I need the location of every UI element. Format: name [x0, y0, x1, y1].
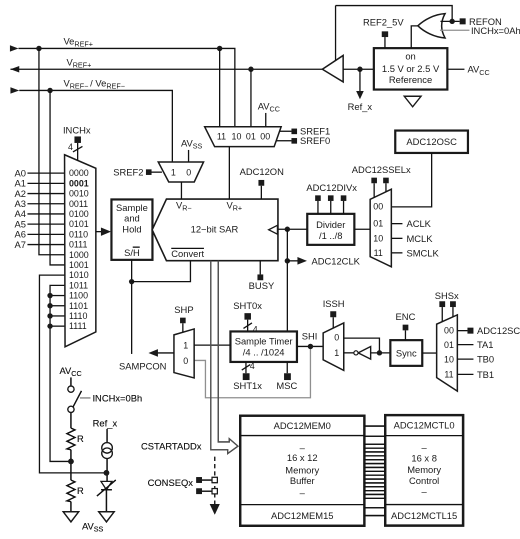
connector open squares on dashed line	[212, 477, 217, 494]
node S/H control junction	[129, 279, 134, 284]
node 1111	[47, 323, 52, 328]
svg-text:00: 00	[444, 326, 454, 336]
resistor R1	[67, 428, 75, 450]
svg-text:R: R	[77, 485, 84, 496]
svg-text:ADC12MCTL15: ADC12MCTL15	[391, 510, 457, 521]
svg-text:ADC12SC: ADC12SC	[477, 325, 520, 336]
svg-text:1111: 1111	[69, 321, 87, 331]
wire net VeREF+ (y=48)	[18, 48, 234, 126]
arrowhead into sample and hold	[101, 227, 111, 235]
wire INCHx select into mux with bus slash	[73, 143, 83, 161]
multiplexer ISSH (invert sample input)	[323, 323, 344, 371]
node junction VREF+ to mux 01	[248, 67, 253, 72]
input A7 wire	[27, 244, 64, 246]
terminal square ENC	[403, 325, 409, 331]
input A1 wire	[27, 182, 64, 184]
svg-text:01: 01	[246, 132, 256, 142]
svg-text:–: –	[422, 442, 428, 453]
input A4 wire	[27, 213, 64, 215]
bus CSTARTADDx fat arrow from SAR convert to memory	[211, 261, 238, 454]
terminal square MSC	[284, 373, 291, 380]
wires SHSx selects into mux	[442, 307, 453, 322]
terminal square ISSH	[330, 311, 336, 317]
wires ADC12SSELx selects into mux	[374, 183, 386, 197]
svg-text:–: –	[422, 486, 428, 497]
label memory control interior	[407, 442, 441, 497]
wire VR- mux output to SAR	[180, 182, 182, 199]
input A6 wire	[27, 233, 64, 235]
ground symbol below diode	[99, 512, 114, 522]
svg-text:1: 1	[334, 348, 339, 358]
wire REFON loop (top)	[336, 6, 453, 22]
svg-text:ADC12OSC: ADC12OSC	[406, 136, 457, 147]
resistor R2	[67, 480, 75, 502]
svg-text:CONSEQx: CONSEQx	[148, 477, 194, 488]
mux labels 1 0	[171, 167, 191, 177]
wire REFON input	[440, 20, 459, 22]
node junction VeREF+ to mux 11	[217, 46, 222, 51]
multiplexer SHSx (sample trigger select)	[437, 315, 458, 391]
terminal square SHP	[180, 318, 186, 324]
ground symbol below R2	[63, 512, 78, 522]
node resistor midpoint	[68, 459, 74, 465]
wires ADC12DIVx selects into divider	[318, 201, 344, 214]
label memory buffer interior	[285, 442, 319, 498]
svg-text:0: 0	[186, 167, 191, 177]
mux code labels 0000-1111	[69, 168, 89, 331]
wire mux 11 input from VeREF+	[219, 48, 221, 126]
svg-text:4: 4	[250, 361, 255, 371]
label on / 1.5 V or 2.5 V / Reference	[382, 51, 440, 86]
terminal squares CONSEQx	[196, 477, 202, 494]
or-gate U1 (REFON + INCHx=0Ah, points left)	[418, 14, 445, 38]
wire SREF2 to mux	[151, 171, 162, 173]
switch INCHx=0Bh	[68, 386, 82, 412]
svg-text:1011: 1011	[69, 280, 88, 290]
svg-text:SAMPCON: SAMPCON	[119, 361, 166, 372]
wire conversion sequence dashed line	[210, 457, 220, 515]
svg-text:0001: 0001	[69, 178, 89, 188]
svg-text:MCLK: MCLK	[406, 233, 433, 244]
mux labels 1 0 (SHP)	[183, 341, 188, 367]
wire net VREF+ (y=68.8)	[10, 68, 322, 70]
node junction VREF- to 1001	[47, 88, 52, 93]
wire switch to resistor R1	[70, 412, 72, 428]
wire stub code 1110	[50, 315, 64, 317]
wire SREF0 select	[276, 140, 291, 142]
label Divider /1../8	[316, 219, 345, 241]
wire ADC12ON to SAR	[260, 186, 262, 199]
svg-text:SMCLK: SMCLK	[406, 247, 439, 258]
terminal square REFON	[460, 18, 466, 24]
terminal square SREF2	[146, 169, 152, 175]
label Convert (with overline)	[171, 248, 204, 259]
input A2 wire	[27, 193, 64, 195]
wire TA1 input	[457, 344, 473, 346]
block Sample Timer /4../1024	[230, 331, 297, 362]
terminal square ADC12SC	[467, 328, 473, 334]
node ADC12CLK junction upper	[285, 227, 290, 232]
terminal square ADC12ON	[258, 180, 264, 186]
svg-text:ADC12MEM15: ADC12MEM15	[271, 510, 334, 521]
svg-text:0010: 0010	[69, 189, 89, 199]
svg-text:SREF0: SREF0	[300, 135, 330, 146]
svg-text:1100: 1100	[69, 291, 88, 301]
svg-text:ADC12DIVx: ADC12DIVx	[306, 182, 357, 193]
svg-text:1: 1	[171, 167, 176, 177]
svg-text:4: 4	[253, 324, 258, 334]
ground symbol below R2	[63, 512, 78, 522]
wire INCHx=0Ah input (gray)	[440, 29, 470, 31]
wire buffer output to reference block	[343, 68, 374, 70]
svg-text:ADC12SSELx: ADC12SSELx	[352, 164, 411, 175]
wire Ref_x to current source	[106, 429, 108, 443]
node SHI junction	[308, 344, 313, 349]
terminal square REF2_5V	[382, 31, 388, 37]
svg-text:BUSY: BUSY	[249, 280, 275, 291]
svg-text:10: 10	[373, 233, 383, 243]
wire AVCC to switch	[70, 377, 72, 386]
svg-text:ISSH: ISSH	[323, 298, 345, 309]
svg-text:INCHx=0Bh: INCHx=0Bh	[92, 392, 142, 403]
terminal square SREF1	[291, 129, 297, 135]
svg-text:10: 10	[232, 132, 242, 142]
block Divider /1../8	[307, 214, 354, 245]
svg-text:SHT1x: SHT1x	[233, 380, 262, 391]
svg-text:1: 1	[183, 341, 188, 351]
svg-text:ADC12MCTL0: ADC12MCTL0	[394, 420, 455, 431]
wire diode to ground	[105, 490, 107, 512]
svg-text:Hold: Hold	[122, 223, 141, 234]
svg-text:R: R	[77, 433, 84, 444]
wire reference output to AVCC	[447, 68, 464, 70]
wire SAMPCON output with arrow	[148, 349, 174, 357]
wire R2 to ground	[70, 502, 72, 512]
svg-text:–: –	[300, 487, 306, 498]
svg-text:Sample: Sample	[116, 202, 148, 213]
block 16x12 Memory Buffer ADC12MEM0-ADC12MEM15	[240, 416, 364, 526]
label Sample and Hold / S/H	[116, 202, 148, 258]
wire ADC12SC input	[457, 330, 467, 332]
node 1100	[47, 293, 52, 298]
svg-text:0110: 0110	[69, 229, 88, 239]
pin arrow VeREF+	[10, 45, 19, 51]
multiplexer VR- select (1/0)	[158, 162, 203, 182]
wire R1 to midpoint node	[70, 450, 72, 480]
wire switch label tick (gray)	[80, 397, 91, 399]
svg-text:01: 01	[373, 219, 383, 229]
svg-text:0011: 0011	[69, 199, 88, 209]
svg-text:11: 11	[374, 248, 383, 258]
wire current source to diode node	[106, 459, 108, 482]
svg-text:01: 01	[444, 340, 454, 350]
label memory control interior	[407, 442, 441, 497]
svg-text:10: 10	[444, 354, 454, 364]
svg-text:INCHx=0Ah: INCHx=0Ah	[471, 25, 520, 36]
svg-text:SHP: SHP	[174, 304, 193, 315]
svg-text:Memory: Memory	[407, 464, 441, 475]
block 1.5V or 2.5V Reference	[374, 48, 448, 89]
svg-text:00: 00	[260, 132, 270, 142]
svg-text:1101: 1101	[69, 301, 88, 311]
label Sample Timer /4../1024	[235, 336, 293, 358]
svg-text:on: on	[405, 51, 415, 62]
wires memory buffer to memory control connections	[364, 426, 385, 515]
current source I1 (temperature sensor bias)	[102, 443, 113, 459]
svg-text:REF2_5V: REF2_5V	[363, 16, 404, 27]
terminal squares ADC12DIVx	[315, 195, 346, 201]
svg-text:0: 0	[183, 356, 188, 366]
wire sync output junction to inverter	[371, 352, 391, 354]
wire switch label tick (gray)	[80, 397, 91, 399]
wire MCLK input	[391, 237, 402, 239]
switch INCHx=0Bh	[68, 386, 82, 412]
wire ADC12CLK tap with arrow	[287, 257, 307, 265]
wire or-gate output to reference block	[411, 26, 418, 48]
svg-text:Ref_x: Ref_x	[93, 417, 118, 428]
pin arrow VREF-/VeREF-	[10, 87, 19, 93]
node sync output junction	[377, 350, 382, 355]
svg-text:12−bit SAR: 12−bit SAR	[191, 223, 239, 234]
node 1110	[47, 313, 52, 318]
node temperature sensor junction	[104, 470, 110, 476]
terminal squares ADC12SSELx	[371, 178, 388, 184]
wire AVCC to mux input 00	[265, 113, 267, 127]
wire ISSH mux output to sample timer (SHI)	[297, 345, 323, 347]
svg-text:0000: 0000	[69, 168, 89, 178]
multiplexer INCHx analog input mux	[65, 155, 96, 347]
wire TB0 input	[457, 358, 473, 360]
inverter (points left)	[354, 347, 371, 360]
svg-text:TA1: TA1	[477, 339, 494, 350]
diode D1 temperature sensor (with slash)	[97, 480, 116, 496]
wire convert junction to SAR convert input	[132, 261, 191, 282]
wire R1 to midpoint node	[70, 450, 72, 480]
terminal square INCHx select	[74, 136, 81, 143]
svg-text:0: 0	[334, 332, 339, 342]
block 16x8 Memory Control ADC12MCTL0-ADC12MCTL15	[385, 415, 463, 525]
wire VREF- down to code 1001	[50, 90, 64, 265]
wire REF2_5V to reference block	[384, 37, 386, 48]
input A3 wire	[27, 203, 64, 205]
multiplexer VR+ select (11 10 01 00)	[205, 127, 282, 147]
wire MSC into timer	[286, 362, 288, 373]
svg-text:16 x 12: 16 x 12	[287, 452, 318, 463]
mux labels 00 01 10 11 (SHSx)	[444, 326, 454, 380]
wire inverter output to ISSH mux input 1	[344, 352, 354, 354]
svg-text:SHSx: SHSx	[435, 290, 459, 301]
svg-text:11: 11	[444, 370, 453, 380]
node Ref_x junction	[357, 67, 362, 72]
svg-text:ADC12ON: ADC12ON	[240, 166, 284, 177]
wire SREF1 select	[279, 130, 291, 132]
wire net VREF-/VeREF- (y=90)	[19, 90, 172, 162]
buffer amplifier reference output (points left)	[322, 55, 343, 81]
wire code 1010 down to temp sensor node	[39, 275, 106, 473]
svg-text:11: 11	[217, 132, 226, 142]
svg-text:Sample Timer: Sample Timer	[235, 336, 293, 347]
svg-text:CSTARTADDx: CSTARTADDx	[141, 441, 202, 452]
wire Ref_x tap with arrow down	[356, 69, 364, 99]
wire conversion sequence dashed line	[210, 457, 220, 515]
wire mux output to sample and hold	[96, 231, 102, 233]
terminal square SHT0x	[244, 313, 251, 320]
svg-text:1.5 V or 2.5 V: 1.5 V or 2.5 V	[382, 63, 440, 74]
terminal square BUSY	[257, 274, 263, 280]
wire stub code 1101	[50, 305, 64, 307]
block 16x12 Memory Buffer ADC12MEM0-ADC12MEM15	[240, 416, 364, 526]
multiplexer ADC12SSELx clock source select	[370, 189, 391, 267]
svg-text:S/H: S/H	[124, 247, 140, 258]
block Sync	[390, 340, 422, 366]
wire ENC into sync	[404, 330, 406, 340]
wire SMCLK input	[391, 252, 402, 254]
wire Ref_x to current source	[106, 429, 108, 443]
wire SHP select into mux	[182, 323, 184, 332]
wire ACLK input	[391, 223, 402, 225]
block Sample and Hold	[111, 199, 152, 259]
svg-text:Sync: Sync	[396, 347, 417, 358]
wire ADC12CLK vertical to sample timer	[286, 229, 288, 331]
node ADC12CLK junction lower	[285, 258, 290, 263]
wires CONSEQx selects	[202, 480, 212, 491]
svg-text:0101: 0101	[69, 219, 89, 229]
svg-text:and: and	[124, 213, 140, 224]
block 16x8 Memory Control ADC12MCTL0-ADC12MCTL15	[385, 415, 463, 525]
svg-text:00: 00	[373, 202, 383, 212]
mux labels 0 1 (ISSH)	[334, 332, 339, 357]
svg-text:/4 .. /1024: /4 .. /1024	[243, 347, 285, 358]
svg-text:ADC12MEM0: ADC12MEM0	[274, 420, 331, 431]
svg-text:16 x 8: 16 x 8	[411, 453, 437, 464]
svg-text:4: 4	[68, 142, 73, 152]
svg-text:0111: 0111	[69, 240, 87, 250]
mux labels 00 01 10 11 (clock select)	[373, 202, 383, 258]
wire timer output to SHP mux input 1	[194, 344, 230, 346]
svg-text:ENC: ENC	[396, 311, 416, 322]
converter block 12-bit SAR (pentagon)	[152, 199, 278, 261]
input A0 wire	[27, 172, 64, 174]
wire SHT1x into timer with bus slash 4	[242, 362, 251, 373]
terminal squares CONSEQx	[196, 477, 202, 494]
wire SHSx mux output to sync	[422, 352, 436, 354]
wire ISSH select into mux	[332, 317, 334, 328]
label memory buffer interior	[285, 442, 319, 498]
wire code 1011 down to resistor midpoint	[50, 285, 71, 461]
node 1101	[47, 303, 52, 308]
svg-text:1001: 1001	[69, 260, 89, 270]
node REFON junction	[449, 19, 454, 24]
wire sync output to ISSH mux input 0	[344, 338, 380, 353]
wire divider output to SAR clock input	[278, 228, 307, 230]
svg-text:0100: 0100	[69, 209, 89, 219]
svg-text:Memory: Memory	[285, 465, 319, 476]
wire diode to ground	[105, 490, 107, 512]
connector open squares on dashed line	[212, 477, 217, 494]
node resistor midpoint	[68, 459, 74, 465]
svg-text:A7: A7	[14, 239, 25, 250]
wire SSEL mux output to divider	[354, 228, 370, 230]
wire R2 to ground	[70, 502, 72, 512]
svg-text:TB0: TB0	[477, 354, 494, 365]
wire switch to resistor R1	[70, 412, 72, 428]
multiplexer SHP (sample pulse mode)	[174, 329, 194, 378]
bus CSTARTADDx fat arrow from SAR convert to memory	[211, 261, 238, 454]
block ADC12OSC oscillator	[395, 131, 468, 153]
svg-text:ACLK: ACLK	[406, 218, 431, 229]
wire TB1 input	[457, 373, 473, 375]
wire AVSS to mux input 0	[188, 150, 190, 162]
svg-text:Divider: Divider	[316, 219, 345, 230]
ground symbol below diode	[99, 512, 114, 522]
wire BUSY from SAR bottom	[259, 261, 261, 275]
svg-text:Ref_x: Ref_x	[348, 101, 373, 112]
svg-text:ADC12CLK: ADC12CLK	[311, 255, 360, 266]
svg-text:1010: 1010	[69, 270, 89, 280]
wire buffer enable from REFON	[335, 6, 337, 61]
svg-text:Reference: Reference	[389, 74, 432, 85]
current source I1 (temperature sensor bias)	[102, 443, 113, 459]
svg-text:INCHx: INCHx	[63, 124, 91, 135]
wires CONSEQx selects	[202, 480, 212, 491]
svg-text:SHT0x: SHT0x	[233, 300, 262, 311]
wire current source to diode node	[106, 459, 108, 482]
svg-text:SREF2: SREF2	[113, 167, 143, 178]
node temperature sensor junction	[104, 470, 110, 476]
wire SHI bypass path (gray)	[194, 346, 310, 397]
wire ADC12OSC to SSEL mux input 00	[391, 153, 431, 207]
wire stub code 1111	[50, 325, 64, 327]
wire S/H output down to SAMPCON line	[131, 260, 133, 354]
svg-text:Convert: Convert	[171, 248, 204, 259]
svg-text:MSC: MSC	[276, 380, 297, 391]
terminal square SREF0	[291, 138, 297, 144]
resistor R1	[67, 428, 75, 450]
svg-text:1000: 1000	[69, 250, 89, 260]
wire SHT0x into timer with bus slash 4	[243, 320, 252, 332]
terminal squares SHSx	[439, 301, 456, 307]
wire mux 01 input from VREF+	[250, 69, 252, 127]
ground symbol below reference	[404, 96, 421, 107]
wires memory buffer to memory control connections	[364, 426, 385, 515]
svg-text:1110: 1110	[69, 311, 87, 321]
diode D1 temperature sensor (with slash)	[97, 480, 116, 496]
mux labels 11 10 01 00	[217, 132, 270, 142]
terminal square SHT1x	[243, 373, 250, 380]
svg-text:SHI: SHI	[302, 331, 318, 342]
wire stub code 1100	[50, 295, 64, 297]
wire VeREF+ down to code 1000	[39, 48, 64, 254]
clock input marker inside SAR right edge	[269, 225, 278, 234]
input A5 wire	[27, 223, 64, 225]
svg-text:Control: Control	[409, 475, 439, 486]
svg-text:Buffer: Buffer	[290, 475, 315, 486]
wire AVCC to switch	[70, 377, 72, 386]
wire VR+ mux output to SAR	[228, 147, 230, 199]
resistor R2	[67, 480, 75, 502]
node junction VeREF+ to 1000	[36, 46, 41, 51]
svg-text:/1 ../8: /1 ../8	[319, 230, 342, 241]
pin arrow VREF+ (output, points left)	[10, 66, 19, 72]
svg-text:TB1: TB1	[477, 369, 494, 380]
